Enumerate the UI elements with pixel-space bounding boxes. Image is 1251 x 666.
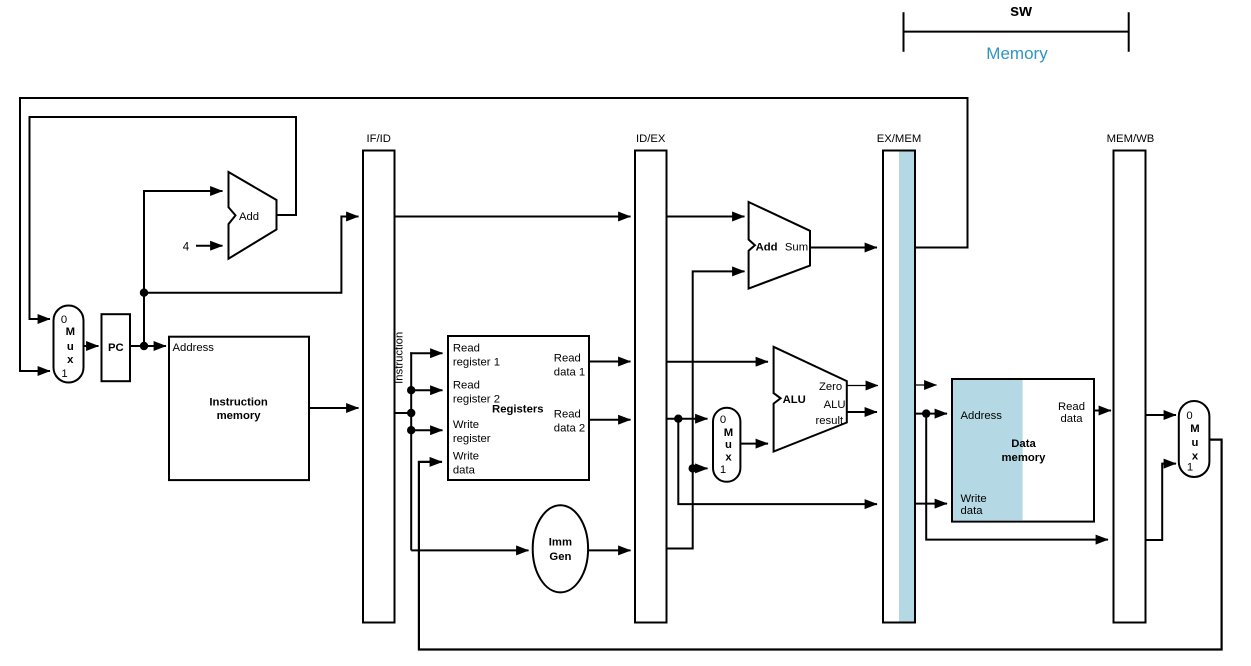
svg-text:Gen: Gen xyxy=(549,551,571,563)
pipeline register IF/ID xyxy=(363,151,395,623)
pipeline register EX/MEM xyxy=(883,151,915,623)
memory: Data memory box xyxy=(952,379,1094,522)
junction instruction bus xyxy=(407,409,415,417)
wire: ALU result bypass to MEM/WB xyxy=(926,414,1108,540)
svg-text:Read: Read xyxy=(554,408,581,420)
junction ALU result xyxy=(922,409,930,417)
svg-text:M: M xyxy=(724,427,733,439)
wire: mux M1 output to PC xyxy=(84,345,99,347)
svg-text:data: data xyxy=(961,505,984,517)
svg-text:IF/ID: IF/ID xyxy=(366,133,390,145)
register file Registers xyxy=(448,336,589,480)
svg-text:Read: Read xyxy=(1058,401,1085,413)
wire: to Read register 2 xyxy=(411,389,442,391)
wire: PC+4 loop Add output to PC mux input 0 xyxy=(30,117,297,319)
wire: instruction bus vertical xyxy=(410,352,412,550)
wire: PC output to instruction memory Address xyxy=(130,345,166,347)
svg-text:0: 0 xyxy=(720,414,726,426)
wire: instruction out of IF/ID xyxy=(395,412,412,414)
memory: Instruction memory box xyxy=(169,337,309,480)
wire: to Imm Gen xyxy=(411,549,528,551)
wire: Read data 2 to ID/EX xyxy=(589,419,631,421)
wire: write data to data memory xyxy=(915,503,947,505)
wire: branch target loop EX/MEM Sum to PC mux input 1 xyxy=(20,98,968,371)
wire: write-back loop mux M3 to Registers Write data xyxy=(419,440,1222,650)
svg-text:M: M xyxy=(1190,423,1199,435)
mux M1 (PC source mux) xyxy=(54,306,84,383)
wire: to Write register xyxy=(411,429,442,431)
svg-text:data: data xyxy=(453,464,476,476)
adder Add (PC+4) xyxy=(229,172,277,259)
wire: Read data to mux M3 input 0 xyxy=(1146,414,1177,416)
svg-text:Write: Write xyxy=(453,419,479,431)
svg-text:Instruction: Instruction xyxy=(209,397,267,409)
junction PC branch xyxy=(140,289,148,297)
svg-text:Address: Address xyxy=(173,342,215,354)
svg-text:ID/EX: ID/EX xyxy=(636,133,666,145)
pipeline register MEM/WB xyxy=(1114,151,1146,623)
svg-text:EX/MEM: EX/MEM xyxy=(877,133,922,145)
wire: PC value IF/ID to ID/EX xyxy=(395,216,631,218)
wire: immediate to mux M2 input 1 xyxy=(693,467,708,469)
wire: Zero to EX/MEM (thin) xyxy=(847,385,878,387)
mux M2 (ALU operand mux) xyxy=(713,408,740,482)
svg-text:Instruction: Instruction xyxy=(394,332,406,384)
wire: constant 4 to Add xyxy=(196,245,223,247)
svg-text:Add: Add xyxy=(239,211,259,223)
mux M3 (write-back mux) xyxy=(1179,401,1210,477)
svg-text:result: result xyxy=(815,415,843,427)
wire: to Read register 1 xyxy=(410,352,442,354)
svg-text:Address: Address xyxy=(961,410,1003,422)
svg-text:PC: PC xyxy=(108,342,124,354)
svg-text:x: x xyxy=(725,451,732,463)
imm gen ellipse xyxy=(533,505,588,592)
svg-text:x: x xyxy=(67,354,74,366)
wire: PC value ID/EX to branch Add xyxy=(667,216,745,218)
svg-text:data: data xyxy=(1061,413,1084,425)
svg-text:Read: Read xyxy=(554,352,581,364)
wire: Imm Gen output to ID/EX xyxy=(588,549,630,551)
highlight data memory left half xyxy=(953,380,1023,521)
svg-text:ALU: ALU xyxy=(783,394,806,406)
svg-text:1: 1 xyxy=(61,368,67,380)
wire: immediate riser to branch Add xyxy=(667,271,745,548)
svg-text:Sum: Sum xyxy=(785,241,808,253)
wire: Read data 1 to ALU xyxy=(667,361,769,363)
svg-text:MEM/WB: MEM/WB xyxy=(1107,133,1155,145)
svg-text:register: register xyxy=(453,433,491,445)
wire: Read data 1 to ID/EX xyxy=(589,361,631,363)
svg-text:u: u xyxy=(67,341,74,353)
svg-text:0: 0 xyxy=(61,314,67,326)
wire: ALU result to EX/MEM xyxy=(847,411,877,413)
svg-text:Write: Write xyxy=(961,493,987,505)
svg-text:Read: Read xyxy=(453,342,480,354)
svg-text:Write: Write xyxy=(453,451,479,463)
junction Read data 2 xyxy=(674,415,682,423)
svg-text:4: 4 xyxy=(183,242,190,254)
junction instruction/read register 2 xyxy=(407,386,415,394)
wire: instruction memory output to IF/ID xyxy=(309,407,359,409)
svg-text:u: u xyxy=(725,439,732,451)
wire: Zero out of EX/MEM (dangling, thin) xyxy=(915,384,937,386)
svg-text:memory: memory xyxy=(1002,452,1047,464)
svg-text:Read: Read xyxy=(453,380,480,392)
wire: PC riser to Add xyxy=(144,191,223,346)
wire: Sum to EX/MEM xyxy=(810,247,877,249)
svg-text:Data: Data xyxy=(1011,438,1036,450)
alu ALU xyxy=(774,347,847,452)
svg-text:Registers: Registers xyxy=(492,404,544,416)
svg-text:1: 1 xyxy=(1187,462,1193,474)
junction immediate riser xyxy=(689,464,697,472)
wire: mux M2 output to ALU xyxy=(740,443,768,445)
svg-text:Memory: Memory xyxy=(986,44,1048,63)
junction PC output xyxy=(140,342,148,350)
svg-text:ALU: ALU xyxy=(824,399,846,411)
svg-text:1: 1 xyxy=(720,464,726,476)
wire: PC to IF/ID xyxy=(144,217,359,293)
highlight EX/MEM right half (sw write) xyxy=(899,152,914,622)
svg-text:M: M xyxy=(66,326,75,338)
svg-text:0: 0 xyxy=(1186,410,1192,422)
svg-text:Zero: Zero xyxy=(819,381,842,393)
junction instruction/write register xyxy=(407,426,415,434)
register PC xyxy=(102,314,131,381)
svg-text:data 1: data 1 xyxy=(554,366,585,378)
svg-text:data 2: data 2 xyxy=(554,422,585,434)
svg-text:sw: sw xyxy=(1010,2,1032,20)
wire: ALU result to data memory Address xyxy=(915,413,947,415)
wire: ALU result to mux M3 input 1 xyxy=(1146,464,1177,540)
stage bracket (sw span) xyxy=(903,12,1130,52)
wire: Read data 2 to EX/MEM write data xyxy=(678,419,877,504)
svg-text:u: u xyxy=(1192,437,1199,449)
wire: Read data to MEM/WB xyxy=(1094,410,1111,412)
svg-text:register 1: register 1 xyxy=(453,356,500,368)
svg-text:Add: Add xyxy=(756,241,778,253)
pipeline register ID/EX xyxy=(635,151,667,623)
svg-text:Imm: Imm xyxy=(549,537,572,549)
wire: Read data 2 to mux M2 input 0 xyxy=(667,418,708,420)
svg-text:memory: memory xyxy=(217,410,262,422)
adder Add (branch target) xyxy=(749,202,810,289)
